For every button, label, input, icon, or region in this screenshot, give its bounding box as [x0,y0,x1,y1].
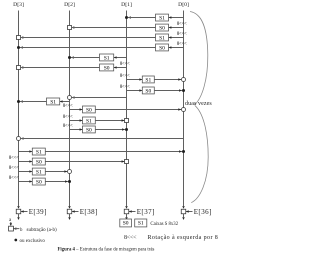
wire D[3] vertical bus [18,11,20,207]
svg-text:E[37]: E[37] [137,208,155,216]
svg-text:E[36]: E[36] [194,208,212,216]
svg-text:S0: S0 [36,159,42,165]
output E[38] [67,206,98,220]
wire D[2] circle to D[1] [72,97,127,99]
svg-text:S1: S1 [50,99,56,105]
output E[37] [124,206,155,220]
wire D[3] to S0g input [19,160,33,163]
rotation circle on D[3] [17,137,24,141]
wire D[3] to S1h input [19,170,33,173]
xor dot on D[0] bottom [182,150,185,153]
svg-text:S0: S0 [159,25,165,31]
legend rotate 8<<< [124,235,137,241]
subtract square on D[3] (row S0c) [17,66,24,70]
rotate label 8<<< row S1b [177,32,187,37]
wire S0g to D[1] square [45,160,124,163]
legend text rotacao [148,235,219,241]
svg-text:subtração (a-b): subtração (a-b) [27,228,57,233]
svg-text:S0: S0 [36,179,42,185]
xor dot on D[0] (row S0d) [182,89,185,92]
xor dot on D[2] (row S1c) [68,56,74,59]
legend xor dot [14,239,17,242]
wire D[1] to S1c input [114,56,127,59]
svg-text:S1: S1 [138,221,144,227]
svg-text:8<<<: 8<<< [120,62,130,67]
svg-text:E[39]: E[39] [29,208,47,216]
rotate label 8<<< row S0d [120,85,130,90]
rotate label 8<<< row S1d [120,74,130,79]
wire S0d to D[0] dot [154,89,182,92]
wire S0f to D[1] dot [95,128,125,131]
wire D[2] to S1f input [70,119,83,122]
S-box S1c [100,54,114,61]
svg-text:8<<<: 8<<< [63,115,73,120]
wire S1f to D[1] square [95,119,124,122]
wire S1g to D[0] dot [45,150,182,153]
legend operand a [9,218,12,226]
rotate label 8<<< row S0c [120,62,130,67]
wire D[3] circle to D[0] [21,138,184,140]
svg-text:8<<<: 8<<< [177,22,187,27]
S-box S1b [156,34,169,41]
wire D[1] to S1d input [127,78,143,81]
output E[39] [16,206,47,220]
wire D[3] square to S-box S0c [21,67,100,69]
node D[1] label [121,2,132,8]
rotate label 8<<< row S0g [9,156,19,161]
svg-text:D[0]: D[0] [178,2,189,8]
svg-text:S0: S0 [104,65,110,71]
rotate label 8<<< row S0a [177,22,187,27]
svg-text:S0: S0 [123,221,129,227]
wire D[1] to S0c input [114,66,127,69]
S-box S1a [156,14,169,21]
S-box S1f [83,117,96,124]
svg-text:8<<<: 8<<< [63,124,73,129]
subtract square on D[2] (row S0a) [68,26,75,30]
wire S1d to D[0] circle [154,78,181,81]
xor dot on D[2] bottom [68,180,71,183]
subtract square on D[1] [125,119,129,123]
wire D[2] to S0e input [70,108,83,111]
S-box S1g [32,148,45,155]
subtract square on D[1] bottom [125,160,129,164]
svg-text:S1: S1 [145,77,151,83]
S-box S0e [83,106,96,113]
svg-text:S1: S1 [86,118,92,124]
svg-text:8<<<: 8<<< [120,85,130,90]
S-box S1e [47,98,60,105]
legend text ou exclusivo [20,239,46,244]
brace duas vezes (upper arc) [190,12,208,105]
xor dot on D[3] (row S0b) [17,46,23,49]
svg-text:8<<<: 8<<< [177,42,187,47]
wire D[3] to S0h input [19,180,33,183]
caption figura 4 [58,247,155,252]
svg-text:S1: S1 [36,169,42,175]
svg-text:8<<<: 8<<< [63,104,73,109]
wire S1h to D[2] circle [45,170,67,173]
svg-text:S1: S1 [159,15,165,21]
svg-text:8<<<: 8<<< [124,235,137,241]
rotation circle on D[0] (row S1d) [182,78,186,82]
S-box S0b [156,44,169,51]
svg-text:8<<<: 8<<< [9,166,19,171]
output E[36] [181,206,212,220]
rotate label 8<<< row S0e [63,104,73,109]
rotate label 8<<< row S0b [177,42,187,47]
wire D[1] dot to S-box S1a [128,17,156,19]
svg-text:Caixas S 8x32: Caixas S 8x32 [150,222,178,227]
subtract square on D[3] (row S1b) [17,36,24,40]
legend S-box S0 [120,219,132,227]
rotation circle on D[2] bottom [68,170,72,174]
legend S-box S1 [135,219,147,227]
svg-text:8<<<: 8<<< [9,176,19,181]
svg-text:S0: S0 [159,45,165,51]
node D[3] label [13,2,24,8]
S-box S0f [83,126,96,133]
rotation circle on D[2] [68,96,75,100]
svg-text:S0: S0 [86,107,92,113]
svg-text:E[38]: E[38] [80,208,98,216]
S-box S0a [156,24,169,31]
S-box S0g [32,158,45,165]
wire D[3] dot to S-box S0b [20,47,156,49]
wire D[0] to S0a input [169,26,184,29]
S-box S1h [32,168,45,175]
S-box S0d [142,87,154,94]
svg-text:8<<<: 8<<< [120,74,130,79]
rotate label 8<<< row S1f [63,115,73,120]
wire D[2] to S1e input [60,100,70,103]
svg-text:8<<<: 8<<< [177,32,187,37]
rotate label 8<<< row S1h [9,166,19,171]
wire D[0] to S1b input [169,36,184,39]
brace duas vezes (lower arc) [191,105,208,202]
wire D[3] to S1g input [19,150,33,153]
S-box S1d [142,76,154,83]
legend text subtracao [27,228,57,233]
wire D[2] to S0f input [70,128,83,131]
rotate label 8<<< row S0h [9,176,19,181]
svg-text:S1: S1 [104,55,110,61]
legend subtract arrow b [14,227,24,232]
wire D[1] vertical bus [126,11,128,207]
node D[0] label [178,2,189,8]
legend text caixas S [150,222,178,227]
legend subtract square [9,226,14,231]
svg-text:D[3]: D[3] [13,2,24,8]
xor dot on D[3] (row S1e) [17,100,23,103]
wire D[0] vertical bus [183,11,185,207]
svg-text:ou exclusivo: ou exclusivo [20,239,46,244]
svg-text:8<<<: 8<<< [9,156,19,161]
wire S0e to D[0] circle [95,108,181,111]
svg-text:S0: S0 [145,88,151,94]
wire D[2] vertical bus [69,11,71,207]
wire D[0] to S1a input [169,16,184,19]
wire D[1] to S0d input [127,89,143,92]
wire S0h to D[2] dot [45,180,68,183]
wire D[3] square to S-box S1b [21,37,156,39]
wire D[3] dot to S-box S1e [20,101,47,103]
node D[2] label [64,2,75,8]
wire D[2] square to S-box S0a [72,27,156,29]
svg-text:Rotação à esquerda por 8: Rotação à esquerda por 8 [148,235,219,241]
svg-text:S1: S1 [36,149,42,155]
S-box S0h [32,178,45,185]
svg-text:S1: S1 [159,35,165,41]
svg-text:duas vezes: duas vezes [185,101,212,107]
svg-text:S0: S0 [86,127,92,133]
xor dot on D[1] low [125,128,128,131]
rotate label 8<<< row S0f [63,124,73,129]
wire D[2] dot to S-box S1c [71,57,100,59]
wire D[0] to S0b input [169,46,184,49]
rotation circle on D[0] low [182,108,186,112]
svg-text:D[1]: D[1] [121,2,132,8]
svg-text:D[2]: D[2] [64,2,75,8]
S-box S0c [100,64,114,71]
xor dot on D[1] (row S1a) [125,16,131,19]
label duas vezes [185,101,212,107]
svg-text:Figura 4 – Estrutura da fase d: Figura 4 – Estrutura da fase de mixagem … [58,247,155,252]
